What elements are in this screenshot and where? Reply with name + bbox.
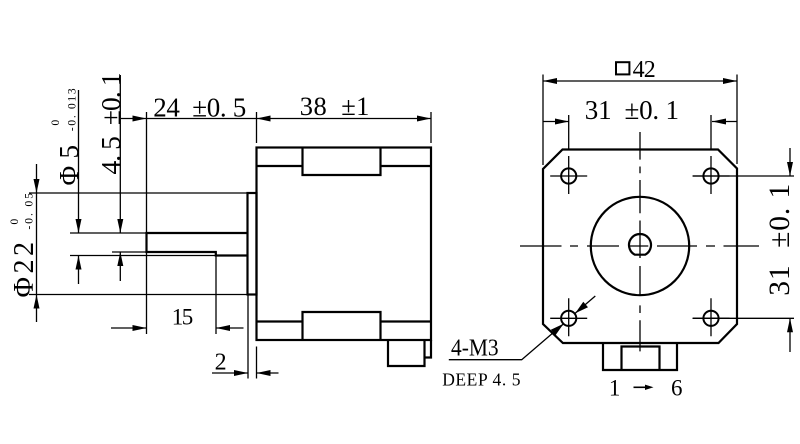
svg-text:6: 6 bbox=[671, 376, 683, 401]
connector latch bbox=[425, 340, 432, 358]
pilot boss circle bbox=[591, 197, 689, 295]
leader second arrow line bbox=[575, 296, 595, 313]
arrow sq42 right bbox=[723, 78, 737, 84]
ext boss left x=248 bbox=[247, 296, 249, 379]
cross bottom-left hole bbox=[550, 298, 587, 336]
hole bottom-left bbox=[561, 311, 576, 326]
31 right dim line x=790 bbox=[789, 148, 791, 352]
arrow 1 to 6 bbox=[634, 385, 654, 390]
pilot boss bbox=[248, 193, 257, 295]
arrowheads front view bbox=[543, 78, 793, 335]
dia5 dim line x=78.5 bbox=[78, 90, 80, 284]
shaft circle with flat bbox=[629, 234, 651, 255]
front end-cap line bbox=[257, 165, 432, 167]
shaft outline bbox=[147, 233, 248, 256]
arrow 15 left bbox=[133, 325, 147, 331]
svg-text:DEEP 4. 5: DEEP 4. 5 bbox=[442, 370, 521, 390]
vertical centerline bbox=[639, 132, 641, 351]
svg-text:Φ22: Φ22 bbox=[9, 242, 40, 298]
svg-text:0: 0 bbox=[9, 219, 21, 225]
hole top-right bbox=[703, 168, 718, 183]
connector tongue bbox=[622, 347, 660, 371]
arrowhead leader second bbox=[575, 302, 588, 314]
extension line body rear x=431 bbox=[430, 112, 432, 143]
hole top-left bbox=[561, 168, 576, 183]
stator stack tab top bbox=[303, 148, 381, 176]
ext hole right x=711 bbox=[710, 115, 712, 150]
arrow dia22 top bbox=[34, 179, 40, 193]
connector front bbox=[603, 343, 677, 370]
arrow 4.5 top bbox=[117, 219, 123, 233]
hole bottom-right bbox=[703, 311, 718, 326]
ext shaft top y=233 bbox=[70, 232, 147, 234]
motor body (side view) bbox=[257, 148, 432, 341]
svg-text:38 ±1: 38 ±1 bbox=[300, 91, 370, 121]
arrow 31 right bottom bbox=[787, 318, 793, 332]
flange outline bbox=[543, 150, 737, 344]
ext holes right y=318.3 bbox=[693, 317, 794, 319]
4.5 dim line x=120.3 bbox=[119, 75, 121, 281]
31 top dim line y=121.5 bbox=[543, 121, 737, 123]
ext sq42 left x=543 bbox=[542, 75, 544, 166]
sq42 dim line y=81 bbox=[543, 80, 737, 82]
svg-text:31 ±0. 1: 31 ±0. 1 bbox=[585, 95, 679, 125]
svg-text:-0. 013: -0. 013 bbox=[67, 88, 79, 131]
arrow 24 left bbox=[133, 116, 147, 122]
arrowheads side view bbox=[34, 116, 432, 377]
svg-text:-0. 05: -0. 05 bbox=[24, 193, 36, 230]
svg-text:15: 15 bbox=[172, 304, 193, 329]
front view dimensions bbox=[449, 75, 794, 360]
arrow 2 left bbox=[234, 370, 248, 376]
cross bottom-right hole bbox=[693, 298, 730, 336]
arrow 4.5 bottom bbox=[117, 252, 123, 266]
arrow 31 top right bbox=[712, 119, 726, 125]
rear end-cap line bbox=[257, 320, 432, 322]
square symbol of 42 bbox=[616, 62, 629, 74]
screw holes bbox=[561, 168, 719, 326]
extension line body front x=256.5 bbox=[256, 112, 258, 143]
ext boss top y=193 bbox=[29, 192, 248, 194]
svg-text:4. 5 ±0. 1: 4. 5 ±0. 1 bbox=[95, 73, 126, 175]
arrow sq42 left bbox=[543, 78, 557, 84]
leader 4-M3 bbox=[449, 324, 564, 360]
ext shaft bottom y=255.5 bbox=[70, 255, 216, 257]
15 dim line y=328 bbox=[111, 327, 244, 329]
ext sq42 right x=737 bbox=[736, 75, 738, 165]
cross top-left hole bbox=[550, 156, 587, 194]
svg-text:42: 42 bbox=[633, 57, 656, 83]
dim line 24/38 y=118.5 bbox=[121, 118, 431, 120]
ext boss bottom y=294.5 bbox=[29, 294, 248, 296]
svg-text:24 ±0. 5: 24 ±0. 5 bbox=[153, 93, 246, 123]
ext flat end x=216 bbox=[215, 253, 217, 334]
svg-text:0: 0 bbox=[50, 120, 62, 126]
label dia22 rotated bbox=[9, 193, 40, 298]
stator stack tab bottom bbox=[303, 312, 381, 340]
arrow dia5 bottom bbox=[76, 256, 82, 270]
svg-text:2: 2 bbox=[215, 349, 227, 375]
arrowhead leader 4-M3 bbox=[551, 324, 564, 336]
arrow 15 right bbox=[216, 325, 230, 331]
2 dim line y=373 bbox=[212, 372, 279, 374]
label dia5 rotated bbox=[50, 88, 84, 185]
arrow dia5 top bbox=[76, 219, 82, 233]
connector body bbox=[388, 340, 425, 366]
ext hole left x=568.7 bbox=[568, 115, 570, 150]
svg-text:4-M3: 4-M3 bbox=[451, 336, 499, 362]
dia22 dim line x=36.5 bbox=[36, 164, 38, 322]
arrow 31 top left bbox=[555, 119, 569, 125]
arrow 38 right bbox=[417, 116, 431, 122]
arrow 31 right top bbox=[787, 162, 793, 176]
arrow 24/38 at body front bbox=[257, 116, 271, 122]
svg-text:31 ±0. 1: 31 ±0. 1 bbox=[764, 184, 796, 296]
label 31 right rotated bbox=[764, 184, 796, 296]
label 4.5 rotated bbox=[95, 73, 126, 175]
extension line shaft end x=146.5 bbox=[146, 112, 148, 334]
arrow 2 right bbox=[257, 370, 271, 376]
cross top-right hole bbox=[693, 156, 730, 194]
ext body front lower x=256.5 bbox=[256, 347, 258, 379]
arrow dia22 bottom bbox=[34, 295, 40, 309]
ext holes right y=176 bbox=[693, 175, 794, 177]
svg-text:1: 1 bbox=[609, 376, 621, 401]
ext flat y=252.7 bbox=[112, 251, 147, 253]
horizontal centerline bbox=[520, 245, 759, 247]
